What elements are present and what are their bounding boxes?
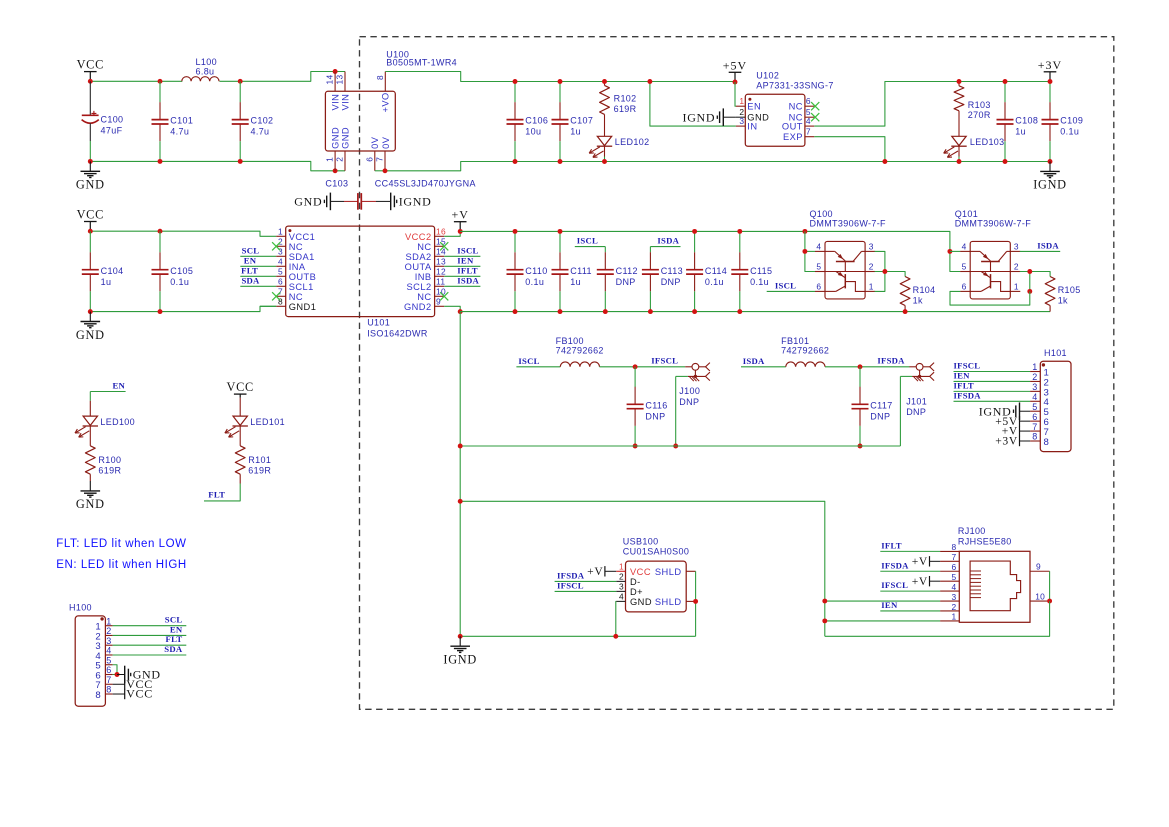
wire Q101 pin2-pin1 tie: [1029, 272, 1031, 292]
svg-text:IGND: IGND: [1033, 178, 1067, 192]
svg-text:7: 7: [806, 127, 811, 137]
svg-text:14: 14: [325, 75, 335, 85]
power flag +V: [454, 222, 467, 232]
svg-text:0.1u: 0.1u: [1060, 127, 1079, 137]
svg-text:CU01SAH0S00: CU01SAH0S00: [623, 547, 689, 557]
power flag +5V: [729, 72, 742, 82]
svg-text:10u: 10u: [525, 127, 541, 137]
svg-text:13: 13: [436, 257, 446, 267]
svg-text:742792662: 742792662: [556, 346, 604, 356]
net label SDA at H100: [113, 654, 187, 656]
svg-text:5: 5: [962, 262, 967, 272]
RJ100 pin 6: [940, 570, 959, 572]
net label IFSCL at USB100: [555, 590, 617, 592]
wire J101 pin2 lead: [900, 375, 912, 377]
no-connect U102 pin6: [811, 102, 819, 110]
svg-text:SCL2: SCL2: [407, 282, 432, 292]
svg-text:4: 4: [816, 241, 821, 251]
svg-text:4: 4: [106, 646, 111, 656]
junction Q101 pin2: [1027, 269, 1032, 274]
svg-text:SCL: SCL: [165, 615, 183, 625]
U100 pin 13 VIN: [344, 72, 346, 92]
net label ISCL at Q100: [767, 290, 815, 292]
ferrite bead FB101: [786, 362, 825, 367]
junction J100 ground: [673, 444, 678, 449]
junction rail to RJ100 pin3: [822, 599, 827, 604]
wire rail to U102 IN: [650, 82, 736, 127]
svg-text:10: 10: [436, 287, 446, 297]
svg-text:8: 8: [1032, 432, 1037, 442]
wire H100 pin7 VCC tap: [113, 683, 125, 685]
U102 pin 6 NC: [805, 105, 814, 107]
wire R101 bottom: [239, 474, 241, 483]
U101 pin 14 SDA2: [435, 255, 445, 257]
svg-text:OUTA: OUTA: [405, 262, 432, 272]
svg-text:IEN: IEN: [457, 255, 474, 265]
svg-text:C109: C109: [1060, 116, 1083, 126]
RJ100 pin 9: [1030, 570, 1050, 572]
svg-text:4: 4: [952, 582, 957, 592]
U100 pin 8 +VO: [384, 72, 386, 92]
junction C115 top: [737, 229, 742, 234]
wire top rail right of L100: [220, 72, 346, 82]
svg-text:5: 5: [278, 267, 283, 277]
U102 pin 1 EN: [736, 105, 745, 107]
junction VCC C100: [88, 79, 93, 84]
H100 pin 6: [105, 674, 112, 676]
svg-text:C113: C113: [661, 266, 683, 276]
svg-text:16: 16: [436, 227, 446, 237]
svg-text:FB100: FB100: [556, 336, 584, 346]
svg-text:2: 2: [619, 572, 624, 582]
svg-text:VCC: VCC: [77, 58, 104, 72]
capacitor C116 DNP: [627, 387, 644, 446]
svg-text:DMMT3906W-7-F: DMMT3906W-7-F: [955, 219, 1032, 229]
H100 pin 7: [105, 683, 112, 685]
svg-text:47uF: 47uF: [101, 126, 123, 136]
capacitor C113 DNP: [642, 252, 659, 311]
svg-text:ISDA: ISDA: [457, 275, 479, 285]
power +V at RJ100 pin7: [929, 556, 931, 566]
svg-text:USB100: USB100: [623, 536, 659, 546]
resistor R102: [600, 85, 610, 114]
capacitor C101: [152, 81, 169, 161]
svg-text:+5V: +5V: [723, 58, 747, 72]
H101 pin1 marker dot: [1042, 363, 1045, 366]
wire RJ100 pin9-pin10 tie: [1049, 571, 1051, 601]
capacitor C114: [686, 231, 703, 311]
svg-text:SDA1: SDA1: [289, 252, 315, 262]
svg-text:1: 1: [325, 157, 335, 162]
svg-text:IFLT: IFLT: [881, 540, 901, 550]
USB100 pin 1 VCC: [616, 570, 625, 572]
junction +3V: [1048, 79, 1053, 84]
svg-text:GND2: GND2: [404, 302, 432, 312]
svg-text:8: 8: [95, 690, 101, 701]
svg-text:6: 6: [278, 277, 283, 287]
wire R104 bottom: [904, 306, 906, 312]
wire R105 bottom: [1049, 306, 1051, 312]
net label EN at LED100: [90, 391, 125, 393]
wire to Q100 pin4: [805, 250, 815, 252]
wire J100 pin2 lead: [676, 375, 688, 377]
svg-text:SDA: SDA: [164, 644, 183, 654]
net label IFSDA at RJ100: [880, 570, 940, 572]
power +V at USB100: [604, 566, 606, 576]
svg-text:6: 6: [806, 96, 811, 106]
wire R101 to FLT: [204, 484, 240, 501]
svg-text:IFSDA: IFSDA: [557, 570, 585, 580]
wire H100 GND tap: [117, 674, 125, 676]
ground IGND bottom: [450, 636, 470, 652]
svg-text:SDA2: SDA2: [406, 252, 432, 262]
svg-text:6: 6: [1032, 412, 1037, 422]
junction C104 GND: [88, 309, 93, 314]
wire H100 pin5-pin6 tie: [113, 665, 117, 675]
wire USB100 GND down: [615, 601, 617, 636]
svg-text:NC: NC: [289, 242, 303, 252]
svg-text:C106: C106: [525, 116, 548, 126]
wire U100 +VO to +5V rail: [385, 72, 735, 82]
svg-text:4: 4: [806, 116, 811, 126]
H101 pin 5: [1030, 410, 1040, 412]
U101 pin 12 INB: [435, 275, 445, 277]
wire USB100 SHLD tie: [695, 571, 697, 636]
svg-text:0V: 0V: [381, 136, 391, 149]
junction LED102 bottom: [602, 159, 607, 164]
junction EXP ground: [882, 159, 887, 164]
svg-text:L100: L100: [196, 57, 217, 67]
net label IFSDA at USB100: [555, 580, 617, 582]
junction GND2 rail: [458, 309, 463, 314]
connector J101 DNP: [912, 363, 934, 382]
svg-text:EN: EN: [244, 255, 257, 265]
svg-text:7: 7: [952, 552, 957, 562]
wire LED103 to rail: [958, 146, 960, 156]
svg-text:6: 6: [962, 281, 967, 291]
H101 pin 4: [1030, 400, 1040, 402]
svg-text:2: 2: [335, 157, 345, 162]
svg-text:FLT: FLT: [241, 265, 258, 275]
svg-text:13: 13: [335, 75, 345, 85]
svg-text:8: 8: [952, 542, 957, 552]
svg-text:1: 1: [869, 281, 874, 291]
resistor R101: [235, 446, 245, 474]
net label ISCL at U101: [444, 255, 480, 257]
junction C111 top: [558, 229, 563, 234]
H100 pin 1: [105, 625, 112, 627]
wire 0V rail right: [385, 162, 1050, 171]
junction C113 bottom: [648, 309, 653, 314]
wire +V to USB100 VCC: [605, 570, 616, 572]
wire +V to RJ100 pin5: [930, 580, 941, 582]
svg-text:+3V: +3V: [1038, 58, 1062, 72]
U101 pin 7 NC: [276, 295, 286, 297]
junction C111 bottom: [558, 309, 563, 314]
ground IGND output: [1040, 162, 1060, 178]
svg-text:VCC: VCC: [126, 687, 153, 701]
wire IGND to U102 GND: [723, 116, 736, 118]
H100 pin 5: [105, 664, 112, 666]
U102 pin 3 IN: [736, 125, 745, 127]
U101 pin 2 NC: [276, 245, 286, 247]
junction R103 top: [957, 79, 962, 84]
svg-text:ISDA: ISDA: [1037, 240, 1059, 250]
svg-text:1: 1: [619, 562, 624, 572]
wire LED100 to R100: [89, 426, 91, 446]
svg-text:+3V: +3V: [995, 435, 1018, 448]
power flag VCC row2: [84, 222, 97, 232]
svg-text:EN: LED lit when HIGH: EN: LED lit when HIGH: [56, 559, 186, 571]
svg-text:2: 2: [106, 626, 111, 636]
svg-text:J101: J101: [906, 396, 927, 406]
transistor Q100 DMMT3906W-7-F dual PNP: [825, 241, 865, 299]
junction H100 GND tie: [115, 672, 120, 677]
svg-text:0.1u: 0.1u: [170, 277, 189, 287]
U102 pin 4 OUT: [805, 125, 814, 127]
svg-text:IGND: IGND: [683, 110, 716, 124]
svg-text:VCC: VCC: [77, 208, 104, 222]
svg-text:4.7u: 4.7u: [170, 127, 189, 137]
svg-text:LED100: LED100: [100, 417, 135, 427]
H100 pin 8: [105, 693, 112, 695]
svg-text:7: 7: [1032, 422, 1037, 432]
junction C102 bottom: [238, 159, 243, 164]
svg-text:D+: D+: [630, 587, 643, 597]
svg-text:J100: J100: [679, 386, 700, 396]
svg-text:H100: H100: [69, 602, 92, 612]
junction C117 bottom: [858, 444, 863, 449]
wire +V to RJ100 pin7: [930, 560, 941, 562]
LED LED100: [75, 416, 98, 437]
junction IN branch: [647, 79, 652, 84]
svg-text:DMMT3906W-7-F: DMMT3906W-7-F: [810, 219, 887, 229]
wire IGND rail to RJ: [825, 601, 1050, 636]
svg-text:1u: 1u: [101, 277, 112, 287]
RJ100 pin 3: [940, 600, 959, 602]
power IGND at U102: [717, 108, 723, 126]
svg-text:IFLT: IFLT: [457, 265, 477, 275]
svg-text:14: 14: [436, 247, 446, 257]
net label EN at H100: [113, 634, 187, 636]
svg-text:742792662: 742792662: [781, 346, 829, 356]
svg-text:C112: C112: [616, 266, 638, 276]
svg-text:IEN: IEN: [881, 600, 898, 610]
svg-text:12: 12: [436, 267, 446, 277]
wire U101 GND2 down: [444, 306, 460, 311]
junction R102 top: [602, 79, 607, 84]
RJ100 jack outline: [970, 561, 1021, 611]
wire to Q101 pin4: [950, 250, 960, 252]
svg-text:NC: NC: [417, 292, 431, 302]
U102 LDO regulator AP7331-33SNG-7: [745, 94, 805, 146]
connector J100 DNP: [688, 363, 710, 382]
junction RJ100 pin10: [1047, 599, 1052, 604]
wire VCC rail row2: [90, 231, 276, 236]
junction C116 bottom: [633, 444, 638, 449]
power +5V at H101 pin6: [1019, 416, 1021, 426]
svg-text:GND: GND: [294, 195, 322, 209]
wire RJ100 pin1 from rail: [825, 620, 940, 622]
wire EN to LED100: [89, 392, 91, 401]
U101 pin 13 OUTA: [435, 265, 445, 267]
svg-text:0.1u: 0.1u: [750, 277, 769, 287]
svg-text:6: 6: [952, 562, 957, 572]
net label FLT at H100: [113, 644, 187, 646]
junction U100 pin1: [333, 168, 338, 173]
wire IGND mid rail: [460, 311, 1050, 313]
capacitor C107: [552, 82, 569, 162]
svg-text:15: 15: [436, 237, 446, 247]
net label EN: [240, 265, 276, 267]
power flag VCC at LED101: [234, 394, 247, 398]
svg-text:GND: GND: [340, 127, 350, 149]
svg-text:IFSDA: IFSDA: [881, 560, 909, 570]
USB100 pin 4 GND: [616, 600, 625, 602]
U101 pin 10 NC: [435, 295, 445, 297]
svg-text:4: 4: [962, 241, 967, 251]
U100 pin 2 GND: [344, 151, 346, 171]
wire ISDA label down to C113: [649, 247, 651, 253]
wire IGND to H101 pin5: [1020, 410, 1031, 412]
svg-text:U102: U102: [756, 70, 779, 80]
no-connect U101 pin7: [272, 292, 280, 300]
U101 pin1 marker dot: [288, 229, 291, 232]
svg-text:R101: R101: [248, 455, 271, 465]
resistor R103: [954, 86, 964, 111]
junction C106 top: [513, 79, 518, 84]
svg-text:IGND: IGND: [443, 653, 477, 667]
svg-text:VIN: VIN: [331, 94, 341, 111]
svg-text:7: 7: [278, 287, 283, 297]
capacitor C115: [731, 231, 748, 311]
U100 pin 14 VIN: [334, 72, 336, 92]
svg-text:1: 1: [1014, 281, 1019, 291]
svg-text:GND: GND: [76, 178, 105, 192]
svg-text:C111: C111: [570, 266, 592, 276]
svg-text:FLT: LED lit when LOW: FLT: LED lit when LOW: [56, 538, 186, 550]
U100 pin 1 GND: [334, 151, 336, 171]
svg-text:C107: C107: [570, 116, 593, 126]
svg-text:R103: R103: [968, 100, 991, 110]
svg-text:C110: C110: [525, 266, 547, 276]
junction R104 rail: [903, 309, 908, 314]
svg-text:C108: C108: [1015, 116, 1038, 126]
svg-text:U101: U101: [367, 318, 390, 328]
wire LED101 anode: [239, 398, 241, 417]
svg-text:7: 7: [375, 157, 385, 162]
wire J100 pin1 lead: [685, 366, 692, 368]
wire C117 top: [859, 367, 861, 387]
svg-text:1: 1: [278, 227, 283, 237]
H100 pin 2: [105, 634, 112, 636]
junction C114 bottom: [692, 309, 697, 314]
svg-text:EXP: EXP: [783, 132, 803, 142]
wire FB101 to J101: [825, 366, 910, 368]
junction C112 bottom: [603, 309, 608, 314]
svg-text:9: 9: [1036, 562, 1041, 572]
svg-text:C114: C114: [705, 266, 727, 276]
net label ISDA at C113: [650, 246, 680, 248]
junction rail3 left: [458, 444, 463, 449]
power +V at H101 pin7: [1019, 426, 1021, 436]
wire FB100 to J100: [600, 366, 686, 368]
svg-text:ISCL: ISCL: [577, 236, 598, 246]
capacitor C112 DNP: [597, 252, 614, 311]
svg-text:IEN: IEN: [954, 370, 971, 380]
wire +5V to U102 EN: [734, 82, 737, 106]
U102 pin 5 NC: [805, 116, 814, 118]
net label SCL at H100: [113, 625, 187, 627]
junction +V: [458, 229, 463, 234]
junction USB100 SHLD: [693, 599, 698, 604]
svg-text:C104: C104: [101, 266, 124, 276]
net label IEN at RJ100: [880, 610, 940, 612]
junction C108 bottom: [1003, 159, 1008, 164]
net label SCL: [240, 255, 276, 257]
junction rail to RJ100 pin1: [822, 618, 827, 623]
svg-text:GND: GND: [331, 127, 341, 149]
svg-text:R100: R100: [98, 455, 121, 465]
svg-text:VCC1: VCC1: [289, 232, 316, 242]
svg-text:0.1u: 0.1u: [705, 277, 724, 287]
wire ISCL label down to C112: [604, 247, 606, 253]
svg-text:IFSDA: IFSDA: [954, 390, 982, 400]
svg-text:SDA: SDA: [241, 275, 260, 285]
H100 pin 4: [105, 654, 112, 656]
svg-text:NC: NC: [789, 102, 803, 112]
wire C116 top: [634, 367, 636, 387]
U101 pin 16 VCC2: [435, 235, 445, 237]
wire J101 pin2 down: [899, 376, 901, 446]
connector USB100 CU01SAH0S00: [626, 561, 687, 612]
wire LED101 to R101: [239, 426, 241, 446]
U101 I2C isolator ISO1642DWR: [286, 226, 435, 317]
junction IGND bottom left: [458, 634, 463, 639]
svg-text:1u: 1u: [1015, 127, 1026, 137]
power IGND at H101 pin5: [1014, 402, 1020, 420]
svg-text:EN: EN: [747, 102, 761, 112]
wire Q100 pin2 to R104: [875, 272, 906, 277]
svg-text:IN: IN: [747, 122, 757, 132]
svg-text:6: 6: [816, 281, 821, 291]
net label ISCL at C112: [575, 246, 606, 248]
net label ISDA at Q101: [1020, 250, 1060, 252]
RJ100 pin 5: [940, 580, 959, 582]
svg-text:OUTB: OUTB: [289, 272, 317, 282]
svg-text:R102: R102: [614, 94, 637, 104]
svg-text:ISCL: ISCL: [518, 356, 539, 366]
capacitor C106: [507, 82, 524, 162]
no-connect U101 pin2: [272, 242, 280, 250]
capacitor C100 47uF polarized: [82, 81, 99, 161]
svg-text:Q100: Q100: [810, 209, 833, 219]
svg-text:IFSCL: IFSCL: [954, 361, 981, 371]
svg-text:GND: GND: [630, 597, 652, 607]
junction C107 top: [558, 79, 563, 84]
wire U101 pin8 GND1: [260, 305, 276, 307]
junction C105 bottom: [158, 309, 163, 314]
wire main IGND vertical: [459, 312, 461, 637]
svg-text:FLT: FLT: [166, 634, 183, 644]
capacitor C105: [152, 231, 169, 311]
junction VCC C104: [88, 229, 93, 234]
svg-text:1: 1: [106, 616, 111, 626]
svg-text:LED103: LED103: [970, 137, 1005, 147]
junction U100 pin7: [383, 168, 388, 173]
junction +5V: [733, 80, 738, 85]
wire GND bottom rail: [90, 161, 345, 170]
